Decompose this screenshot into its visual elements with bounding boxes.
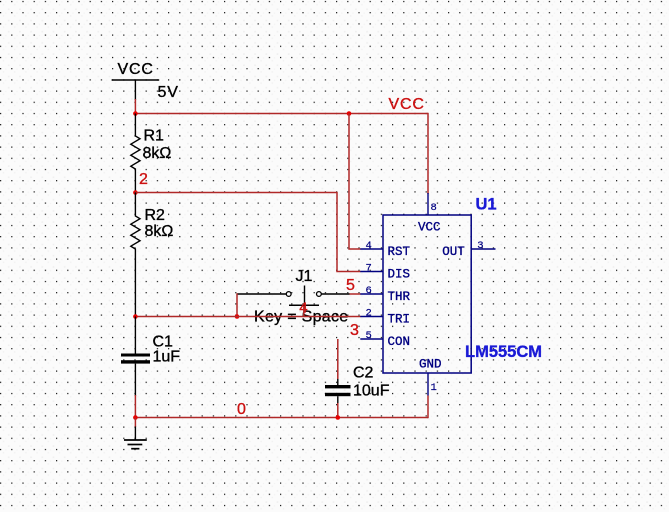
svg-text:10uF: 10uF xyxy=(353,383,390,400)
ground xyxy=(124,418,147,449)
svg-text:GND: GND xyxy=(419,358,442,372)
node junction VCC/R1 xyxy=(133,111,138,116)
svg-text:8: 8 xyxy=(431,202,437,214)
IC U1 LM555CM xyxy=(383,196,542,374)
svg-text:1: 1 xyxy=(431,382,437,394)
svg-text:THR: THR xyxy=(388,290,411,304)
pin 3 OUT stub xyxy=(471,248,495,250)
pin 7 DIS stub xyxy=(360,271,383,273)
svg-text:8kΩ: 8kΩ xyxy=(143,145,172,162)
wire pin1 to net 0 xyxy=(427,396,429,419)
wire VCC source to net VCC xyxy=(134,99,136,114)
VCC power symbol xyxy=(112,61,160,100)
switch J1 xyxy=(237,268,350,305)
svg-text:R1: R1 xyxy=(144,128,165,145)
wire net 0 horizontal xyxy=(135,417,428,419)
pin 8 VCC stub xyxy=(427,193,429,215)
pin 4 RST stub xyxy=(360,248,383,250)
resistor R1 xyxy=(131,114,172,193)
svg-text:5V: 5V xyxy=(158,84,179,101)
svg-text:VCC: VCC xyxy=(118,61,154,78)
capacitor C1 xyxy=(121,317,180,397)
svg-text:7: 7 xyxy=(366,263,372,275)
wire net 2 to DIS xyxy=(135,193,361,272)
svg-text:2: 2 xyxy=(366,308,372,320)
node junction C2 net 0 xyxy=(336,415,341,420)
svg-text:1uF: 1uF xyxy=(153,349,181,366)
pin 1 GND stub xyxy=(427,373,429,396)
wire net VCC horizontal xyxy=(135,113,428,115)
node junction R1/R2 net 2 xyxy=(133,190,138,195)
svg-text:U1: U1 xyxy=(476,196,497,214)
svg-text:C2: C2 xyxy=(353,365,374,382)
wire C1 to net 0 xyxy=(134,395,136,418)
svg-text:0: 0 xyxy=(237,401,246,418)
capacitor C2 xyxy=(325,365,390,405)
svg-text:VCC: VCC xyxy=(418,221,441,235)
node junction C1/ground net 0 xyxy=(133,415,138,420)
svg-text:CON: CON xyxy=(388,335,411,349)
svg-text:5: 5 xyxy=(346,277,355,294)
svg-text:5: 5 xyxy=(366,330,372,342)
svg-text:TRI: TRI xyxy=(388,313,411,327)
svg-text:4: 4 xyxy=(366,240,372,252)
svg-text:8kΩ: 8kΩ xyxy=(145,223,174,240)
pin 5 CON stub xyxy=(360,338,383,340)
svg-text:6: 6 xyxy=(366,285,372,297)
svg-text:OUT: OUT xyxy=(442,245,465,259)
wire net VCC down to pin 8 xyxy=(427,113,429,194)
svg-text:VCC: VCC xyxy=(389,96,425,113)
wire stub net 4 xyxy=(303,306,305,317)
node junction R2/C1 net 3 xyxy=(133,314,138,319)
wire net 3 horizontal to TRI xyxy=(135,316,361,318)
svg-text:2: 2 xyxy=(139,171,148,188)
svg-text:3: 3 xyxy=(350,322,359,339)
svg-text:RST: RST xyxy=(388,245,411,259)
wire switch left down to net 3 xyxy=(236,293,238,316)
svg-text:3: 3 xyxy=(477,240,483,252)
node junction VCC/RST branch xyxy=(347,111,352,116)
node junction switch/net 3 xyxy=(235,314,240,319)
wire C2 to net 0 xyxy=(337,403,339,418)
svg-text:R2: R2 xyxy=(145,207,166,224)
wire VCC branch to RST xyxy=(349,114,361,250)
svg-text:LM555CM: LM555CM xyxy=(465,343,542,361)
pin 2 TRI stub xyxy=(360,316,383,318)
svg-text:J1: J1 xyxy=(296,268,313,285)
wire CON to C2 xyxy=(337,339,339,379)
svg-text:DIS: DIS xyxy=(388,268,411,282)
wire switch to THR net 5 xyxy=(350,293,361,295)
pin 6 THR stub xyxy=(360,293,383,295)
resistor R2 xyxy=(131,193,174,317)
